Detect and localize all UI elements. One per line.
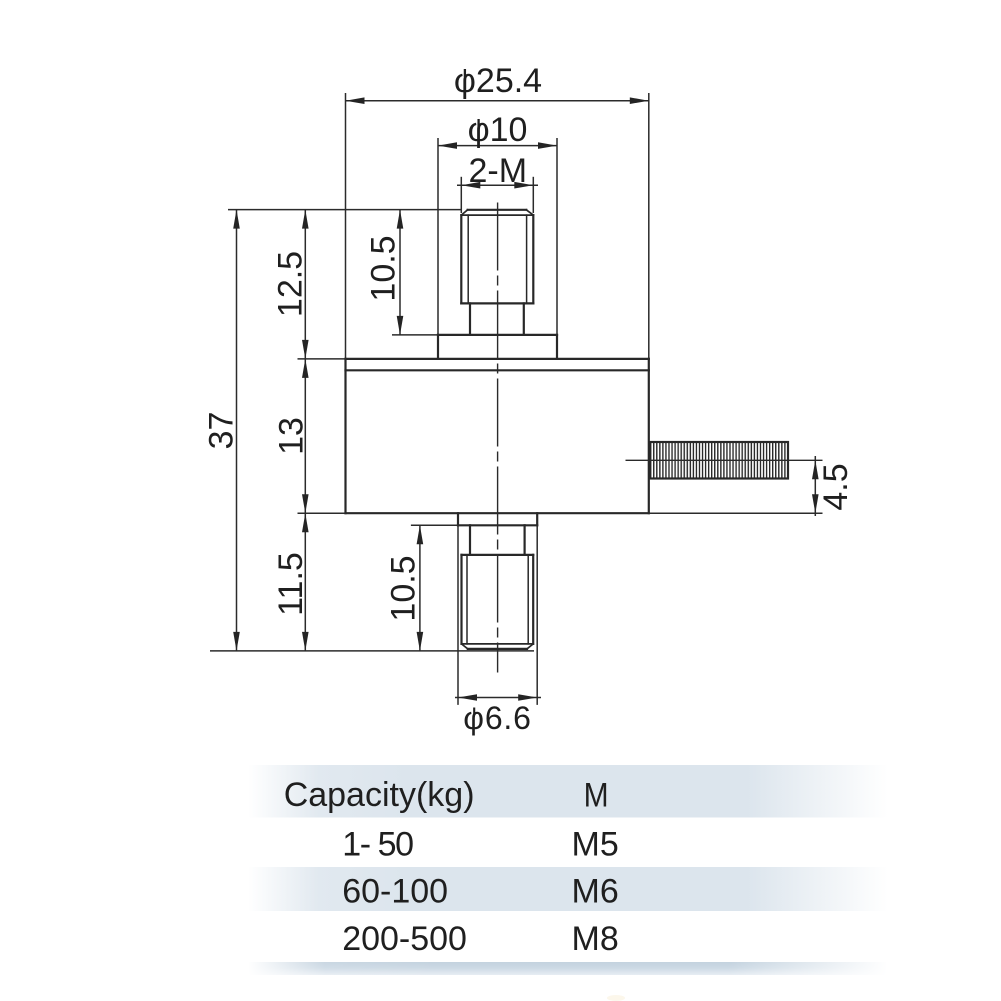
top shank left bbox=[469, 303, 471, 335]
table band row 60-100 bbox=[248, 867, 888, 911]
top stud outer right bbox=[532, 215, 534, 303]
ext phi6.6 left bbox=[457, 525, 459, 705]
table band header row bbox=[248, 765, 888, 818]
svg-text:11.5: 11.5 bbox=[272, 552, 310, 616]
arrows phi6.6 bbox=[458, 694, 477, 701]
arrows 13 bbox=[302, 359, 309, 378]
ext phi25.4 left bbox=[345, 93, 347, 359]
dim line 10.5 bottom bbox=[419, 525, 421, 651]
dimension texts bbox=[203, 62, 856, 736]
ext phi25.4 right bbox=[648, 93, 650, 359]
table texts bbox=[284, 776, 619, 958]
side threaded stud hatched bbox=[650, 442, 788, 479]
svg-text:1- 50: 1- 50 bbox=[342, 825, 413, 863]
arrows 10.5 bottom bbox=[417, 525, 424, 544]
top boss right side bbox=[556, 335, 558, 359]
svg-text:φ25.4: φ25.4 bbox=[454, 62, 542, 100]
bottom stud outer left bbox=[460, 555, 462, 644]
ext phi10 left bbox=[437, 138, 439, 335]
vertical center line bbox=[497, 203, 499, 673]
top shank right bbox=[523, 303, 525, 335]
top boss phi10 top face bbox=[438, 334, 557, 336]
ext 2-M right bbox=[532, 177, 534, 213]
bottom boss phi6.6 left side bbox=[457, 513, 459, 525]
svg-text:Capacity(kg): Capacity(kg) bbox=[284, 776, 475, 814]
svg-text:200-500: 200-500 bbox=[342, 920, 467, 958]
svg-text:M5: M5 bbox=[572, 826, 619, 864]
svg-text:10.5: 10.5 bbox=[365, 235, 403, 301]
bottom stud thread inner left bbox=[466, 555, 468, 644]
bottom stud left chamfer bbox=[462, 644, 468, 649]
svg-text:M8: M8 bbox=[572, 920, 619, 958]
top stud chamfer ring line bbox=[461, 214, 533, 216]
arrows 12.5 bbox=[302, 210, 309, 229]
body right edge bbox=[648, 359, 650, 513]
ext 10.5 top bottom ref bbox=[392, 334, 438, 336]
dim line 10.5 top bbox=[399, 210, 401, 335]
phi stem extension for phi10 bbox=[477, 119, 479, 127]
phi stem extension for phi6.6 bbox=[473, 708, 475, 716]
bottom shank right bbox=[523, 525, 525, 555]
svg-text:2-M: 2-M bbox=[469, 152, 528, 190]
bottom stud right chamfer bbox=[527, 644, 533, 649]
bottom stud thread inner right bbox=[527, 555, 529, 644]
faint yellow smudge bottom bbox=[607, 995, 625, 1001]
top stud left chamfer bbox=[461, 210, 467, 215]
ext phi6.6 right bbox=[536, 525, 538, 705]
ext top horizontal shared bbox=[228, 209, 461, 211]
dimension and extension lines bbox=[210, 93, 823, 705]
dim line 37 bbox=[236, 210, 238, 651]
dim line 4.5 bbox=[814, 456, 816, 516]
top stud thread inner right bbox=[526, 215, 528, 303]
top stud right chamfer bbox=[526, 210, 533, 215]
bottom stud thread top line bbox=[462, 554, 534, 556]
flange/body separation line bbox=[346, 369, 649, 371]
top stud top face bbox=[468, 209, 527, 211]
ext bottom horizontal shared bbox=[210, 650, 534, 652]
arrowheads bbox=[233, 97, 818, 700]
dim line phi10 bbox=[438, 145, 557, 147]
bottom stud outer right bbox=[532, 555, 534, 644]
bottom stud chamfer ring line bbox=[462, 643, 534, 645]
dim line 2-M bbox=[457, 184, 538, 186]
bottom stud bottom face bbox=[468, 648, 527, 650]
svg-text:M: M bbox=[584, 777, 609, 815]
dim line phi25.4 bbox=[346, 100, 649, 102]
svg-text:60-100: 60-100 bbox=[342, 873, 448, 911]
svg-text:φ10: φ10 bbox=[468, 111, 528, 149]
dim line 12.5 13 11.5 bbox=[304, 210, 306, 651]
top stud thread inner left bbox=[467, 215, 469, 303]
svg-text:φ6.6: φ6.6 bbox=[463, 700, 531, 736]
svg-text:4.5: 4.5 bbox=[817, 463, 855, 510]
arrows phi10 bbox=[438, 142, 457, 149]
arrows 11.5 bbox=[302, 513, 309, 532]
svg-text:13: 13 bbox=[273, 417, 311, 455]
top boss left side bbox=[437, 335, 439, 359]
ext 2-M left bbox=[460, 177, 462, 213]
bottom shank left bbox=[469, 525, 471, 555]
ext body bottom right for 4.5 bbox=[649, 512, 823, 514]
svg-text:M6: M6 bbox=[572, 873, 619, 911]
table band bottom thin bbox=[248, 962, 888, 975]
flange top face bbox=[346, 358, 649, 360]
arrows 37 bbox=[233, 210, 240, 229]
svg-text:12.5: 12.5 bbox=[272, 251, 310, 317]
ext 10.5 bottom top ref bbox=[411, 524, 458, 526]
ext flange top left bbox=[298, 358, 346, 360]
horizontal center line of side stud bbox=[626, 459, 823, 461]
body left edge bbox=[344, 359, 346, 513]
arrows 10.5 top bbox=[397, 210, 404, 229]
ext body bottom left bbox=[298, 512, 346, 514]
main body outline bbox=[346, 210, 649, 649]
bottom boss phi6.6 right side bbox=[536, 513, 538, 525]
top stud thread bottom line bbox=[461, 302, 533, 304]
body bottom face bbox=[346, 512, 649, 514]
arrows 4.5 bbox=[812, 460, 819, 479]
bottom boss bottom face bbox=[458, 524, 537, 526]
ext phi10 right bbox=[556, 138, 558, 335]
arrows 2-M bbox=[461, 182, 480, 189]
dim line phi6.6 bbox=[455, 697, 541, 699]
top stud outer left bbox=[460, 215, 462, 303]
svg-text:37: 37 bbox=[203, 412, 241, 450]
svg-text:10.5: 10.5 bbox=[385, 555, 423, 621]
arrows phi25.4 bbox=[346, 97, 365, 104]
phi stem extension for phi25.4 bbox=[464, 69, 466, 77]
